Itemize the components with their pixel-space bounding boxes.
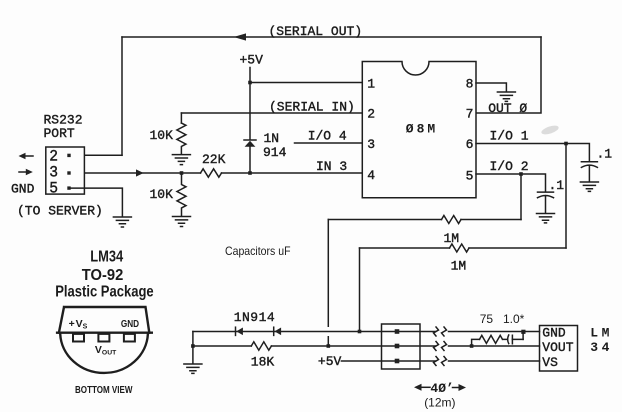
- svg-text:VOUT: VOUT: [542, 340, 573, 355]
- arrowhead on pin3 wire: [136, 169, 144, 176]
- svg-text:1M: 1M: [444, 231, 460, 246]
- TO-92 pin tab 1: [73, 334, 84, 342]
- svg-text:914: 914: [263, 145, 287, 160]
- svg-text:10K: 10K: [150, 187, 174, 202]
- wire left vertical from serial-out to RS232 pin 2: [121, 37, 123, 155]
- wire RC left corner to VOUT row: [472, 339, 480, 346]
- junction pin6 / 1M vertical: [564, 142, 568, 146]
- svg-text:I/O 1: I/O 1: [490, 129, 529, 144]
- diode D 1N914 (second): [274, 327, 281, 335]
- svg-text:Capacitors uF: Capacitors uF: [225, 244, 291, 258]
- IC U1 PICAXE-08M body: [362, 62, 476, 198]
- ground under right cap: [580, 182, 598, 191]
- svg-text:1.0*: 1.0*: [503, 312, 525, 326]
- svg-text:IN 3: IN 3: [316, 159, 347, 174]
- resistor R 18K: [251, 342, 271, 350]
- ground at sensor cable left: [184, 364, 202, 373]
- wire RC vertical from GND row: [522, 332, 524, 340]
- svg-text:18K: 18K: [251, 354, 275, 369]
- svg-text:10K: 10K: [150, 128, 174, 143]
- junction 10K lower / line: [180, 171, 184, 175]
- wire VS row (sensor cable): [341, 360, 539, 362]
- junction on VOUT row: [327, 344, 331, 348]
- cable break marks row1: [434, 327, 447, 336]
- svg-text:3: 3: [367, 137, 375, 152]
- wire serial-in corner down to 10K: [180, 113, 182, 123]
- svg-text:1: 1: [367, 76, 375, 91]
- resistor R 22K: [201, 169, 222, 177]
- svg-text:I/O 4: I/O 4: [308, 129, 347, 144]
- ground under inner cap: [537, 214, 555, 223]
- ground at IC pin8: [497, 92, 515, 101]
- svg-text:GND: GND: [11, 182, 35, 197]
- pin pad 5: [67, 186, 70, 189]
- ground under lower 10K: [173, 217, 191, 227]
- wire +5V to IC pin 1: [250, 82, 362, 84]
- wire VOUT row (sensor cable): [193, 345, 540, 347]
- svg-text:Ø8M: Ø8M: [406, 122, 438, 137]
- wire 1M row 2: [360, 247, 567, 249]
- wire vertical 1M row2 to GND row: [359, 248, 361, 332]
- wire vertical from pin6 junction down to 1M row 2: [565, 144, 567, 249]
- junction left corner / VOUT row: [191, 344, 195, 348]
- svg-text:(12m): (12m): [424, 396, 455, 410]
- cable break marks row2: [434, 342, 447, 351]
- svg-text:1N: 1N: [264, 131, 280, 146]
- resistor R 75: [480, 335, 524, 343]
- svg-text:GND: GND: [542, 326, 566, 341]
- svg-text:4Ø’: 4Ø’: [430, 381, 453, 396]
- capacitor C .1 (right): [581, 162, 597, 182]
- arrow in (right): [19, 169, 33, 175]
- wire IN3 line: RS232 pin3 to IC pin 4: [69, 172, 362, 174]
- svg-text:5: 5: [49, 180, 58, 198]
- wire RS232 pin5 to ground: [69, 188, 122, 216]
- TO-92 pin tab 3: [124, 334, 135, 342]
- scan smudge artifact: [540, 124, 559, 136]
- connector box (cable header): [382, 324, 421, 369]
- svg-text:(TO SERVER): (TO SERVER): [17, 204, 103, 219]
- ground for RS232 pin5: [113, 217, 131, 227]
- wire 1M row 1: [328, 219, 521, 221]
- svg-text:LM34: LM34: [90, 249, 123, 266]
- capacitor C 1.0 (series): [508, 335, 513, 344]
- wire I/O4 stub to IC pin 3: [295, 142, 363, 144]
- capacitor C .1 (inner): [538, 192, 554, 213]
- wire serial-in line to IC pin 2: [181, 112, 362, 114]
- svg-text:VS: VS: [542, 355, 558, 370]
- svg-text:22K: 22K: [202, 152, 226, 167]
- svg-text:Plastic Package: Plastic Package: [55, 284, 154, 301]
- svg-text:PORT: PORT: [44, 126, 75, 141]
- wire left corner GND row down to VOUT row and ground: [192, 332, 194, 364]
- connector pad row1: [395, 329, 400, 334]
- wire serial-out top rail: [122, 36, 541, 38]
- LM34 sensor box: [540, 326, 578, 372]
- wire vertical from pin5 junction down to 1M row 1: [520, 174, 522, 220]
- svg-text:GND: GND: [121, 318, 140, 330]
- arrowhead on serial-out wire: [234, 33, 246, 40]
- svg-text:+5V: +5V: [318, 354, 342, 369]
- connector pad row2: [395, 344, 400, 349]
- diode D 1N914 (first): [236, 327, 243, 335]
- connector pad row3: [395, 359, 400, 364]
- arrow out (left): [19, 153, 34, 159]
- junction pin5 / 1M vertical: [519, 172, 523, 176]
- svg-text:.1: .1: [597, 147, 613, 162]
- svg-text:OUT Ø: OUT Ø: [488, 101, 527, 116]
- resistor R 1M (second): [450, 244, 469, 252]
- svg-text:.1: .1: [549, 178, 565, 193]
- ground under upper 10K: [172, 155, 190, 165]
- svg-text:8: 8: [466, 76, 474, 91]
- dimension arrows 40': [414, 384, 466, 391]
- junction on GND row: [358, 330, 362, 334]
- wire IC pin5 row to cap: [476, 174, 546, 192]
- svg-text:75: 75: [480, 312, 494, 326]
- svg-text:34: 34: [590, 340, 613, 355]
- junction RC network top / GND row: [521, 330, 525, 334]
- pin pad 2: [67, 154, 70, 157]
- svg-text:1N914: 1N914: [234, 310, 276, 325]
- wire +5V vertical to diode: [249, 68, 251, 140]
- svg-text:BOTTOM VIEW: BOTTOM VIEW: [75, 384, 133, 396]
- svg-text:LM: LM: [590, 326, 613, 341]
- wire vertical 1M row1 to VOUT row (with hop over GND row): [327, 220, 329, 347]
- wire GND row (sensor cable): [193, 331, 540, 333]
- wire RS232 pin2 to vertical: [69, 154, 122, 156]
- junction RC / VOUT row: [470, 344, 474, 348]
- TO-92 package outline (bottom view): [57, 307, 152, 373]
- resistor R 10K (upper): [177, 123, 186, 154]
- junction +5V / pin1: [248, 81, 252, 85]
- svg-text:TO-92: TO-92: [82, 267, 124, 284]
- svg-text:4: 4: [367, 168, 375, 183]
- svg-text:6: 6: [466, 137, 474, 152]
- svg-text:+5V: +5V: [240, 53, 264, 68]
- wire right vertical serial-out to IC pin7: [476, 37, 541, 113]
- TO-92 pin tab 2: [98, 334, 109, 342]
- svg-text:7: 7: [466, 107, 474, 122]
- resistor R 1M (first): [442, 216, 461, 224]
- wire IC pin6 row to cap: [476, 144, 589, 162]
- svg-text:I/O 2: I/O 2: [490, 159, 529, 174]
- diode D-clamp 1N914 (vertical): [244, 140, 256, 173]
- pin pad 3: [67, 171, 70, 174]
- RS232 port connector box: [46, 147, 85, 194]
- junction diode anode / IN3 line: [248, 171, 252, 175]
- resistor R 10K (lower): [177, 173, 186, 216]
- svg-text:(SERIAL OUT): (SERIAL OUT): [269, 24, 363, 39]
- svg-text:1M: 1M: [451, 258, 467, 273]
- wire IC pin8 to ground: [476, 83, 506, 92]
- svg-text:5: 5: [466, 169, 474, 184]
- svg-text:2: 2: [367, 107, 375, 122]
- cable break marks row3: [434, 357, 447, 366]
